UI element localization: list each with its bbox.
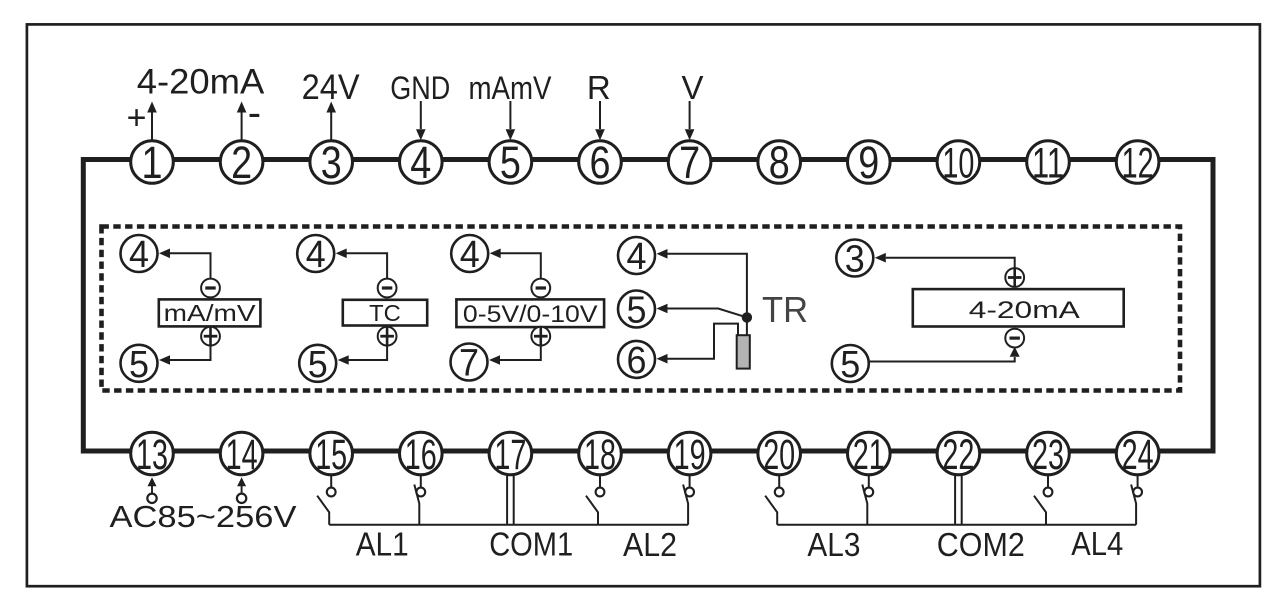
svg-text:9: 9 — [858, 137, 879, 188]
svg-text:5: 5 — [627, 290, 647, 332]
svg-text:13: 13 — [136, 431, 168, 479]
svg-text:14: 14 — [226, 431, 258, 479]
svg-text:AC85~256V: AC85~256V — [110, 499, 297, 534]
svg-text:23: 23 — [1032, 431, 1064, 479]
svg-text:AL3: AL3 — [807, 526, 860, 563]
svg-text:AL4: AL4 — [1071, 525, 1123, 562]
svg-text:18: 18 — [584, 431, 616, 479]
svg-text:11: 11 — [1032, 139, 1064, 187]
svg-text:4: 4 — [306, 234, 326, 276]
svg-text:TR: TR — [762, 289, 808, 330]
svg-text:24: 24 — [1122, 431, 1154, 479]
svg-text:17: 17 — [494, 431, 526, 479]
svg-text:12: 12 — [1122, 139, 1154, 187]
svg-text:5: 5 — [308, 344, 328, 386]
svg-text:20: 20 — [763, 431, 795, 479]
svg-text:4-20mA: 4-20mA — [969, 297, 1080, 324]
svg-text:R: R — [587, 69, 611, 106]
svg-text:4: 4 — [460, 234, 480, 276]
svg-text:COM2: COM2 — [937, 526, 1025, 563]
svg-text:4: 4 — [627, 236, 647, 278]
svg-text:10: 10 — [942, 139, 974, 187]
svg-text:+: + — [127, 99, 147, 137]
svg-text:5: 5 — [840, 344, 860, 386]
svg-text:4-20mA: 4-20mA — [137, 63, 265, 102]
svg-text:6: 6 — [627, 340, 647, 382]
svg-text:16: 16 — [405, 431, 437, 479]
svg-text:-: - — [248, 91, 261, 135]
svg-text:24V: 24V — [302, 68, 361, 107]
svg-text:8: 8 — [769, 137, 790, 188]
svg-text:3: 3 — [845, 239, 865, 281]
svg-text:AL1: AL1 — [356, 526, 409, 563]
svg-text:6: 6 — [590, 137, 611, 188]
svg-text:mA/mV: mA/mV — [164, 300, 257, 326]
svg-text:TC: TC — [369, 300, 401, 326]
svg-text:3: 3 — [321, 137, 342, 188]
svg-text:5: 5 — [500, 137, 521, 188]
svg-text:V: V — [681, 69, 703, 106]
svg-text:4: 4 — [410, 137, 431, 188]
svg-text:1: 1 — [142, 137, 163, 188]
svg-text:21: 21 — [853, 431, 885, 479]
svg-text:5: 5 — [129, 344, 149, 386]
svg-text:0-5V/0-10V: 0-5V/0-10V — [463, 301, 598, 328]
svg-text:4: 4 — [129, 234, 149, 276]
svg-text:AL2: AL2 — [623, 526, 677, 563]
svg-text:GND: GND — [390, 70, 450, 106]
svg-text:7: 7 — [459, 343, 479, 385]
svg-text:COM1: COM1 — [489, 526, 573, 563]
svg-text:7: 7 — [679, 137, 700, 188]
svg-text:2: 2 — [231, 137, 252, 188]
svg-text:mAmV: mAmV — [469, 70, 553, 106]
svg-text:19: 19 — [674, 431, 706, 479]
svg-text:15: 15 — [315, 431, 347, 479]
svg-text:22: 22 — [942, 431, 974, 479]
